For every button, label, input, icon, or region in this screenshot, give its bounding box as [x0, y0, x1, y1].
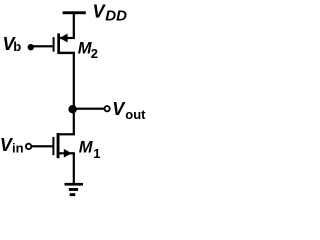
transistor M2 (PMOS) [53, 33, 75, 54]
M1 source terminal (bottom) [60, 152, 75, 154]
ground [65, 183, 84, 196]
M2 gate bar [53, 37, 55, 52]
M1 source arrow (points away from gate, NMOS) [64, 149, 72, 158]
ground bar 1 [65, 183, 84, 186]
label M1 [79, 139, 101, 161]
svg-text:2: 2 [91, 46, 98, 61]
svg-text:V: V [112, 99, 126, 119]
label Vb [3, 34, 22, 54]
M2 source terminal (top) [60, 37, 75, 39]
terminal dot Vb [28, 44, 34, 50]
M2 source arrow (points into gate, PMOS) [60, 34, 68, 43]
label VDD [93, 2, 128, 25]
M1 gate bar [52, 137, 54, 155]
svg-text:b: b [13, 39, 21, 54]
M2 channel bar [57, 33, 60, 54]
svg-text:in: in [12, 140, 24, 155]
input terminal Vin (open circle) [26, 144, 31, 149]
power rail VDD bar [63, 11, 86, 14]
M1 drain terminal (top) [60, 133, 75, 135]
wire Vin to M1 gate [31, 145, 52, 147]
label M2 [78, 39, 98, 61]
output terminal Vout (open circle) [105, 106, 110, 111]
wire VDD bar to M2 source [73, 13, 75, 39]
svg-text:M: M [79, 139, 94, 157]
ground bar 2 [69, 188, 78, 191]
transistor M1 (NMOS) [52, 133, 75, 158]
label Vin [0, 135, 24, 156]
svg-text:out: out [125, 107, 146, 122]
wire M2 drain to output node and M1 drain [73, 53, 75, 135]
label Vout [112, 99, 146, 122]
node Vout junction [68, 105, 76, 113]
M2 drain terminal (bottom) [60, 52, 75, 54]
wire Vb to M2 gate [31, 45, 53, 47]
wire M1 source to ground [73, 154, 75, 184]
M1 channel bar [57, 133, 60, 158]
svg-text:1: 1 [93, 146, 100, 161]
wire output node to Vout terminal [73, 108, 104, 110]
svg-text:DD: DD [105, 7, 127, 24]
ground bar 3 [70, 193, 76, 196]
